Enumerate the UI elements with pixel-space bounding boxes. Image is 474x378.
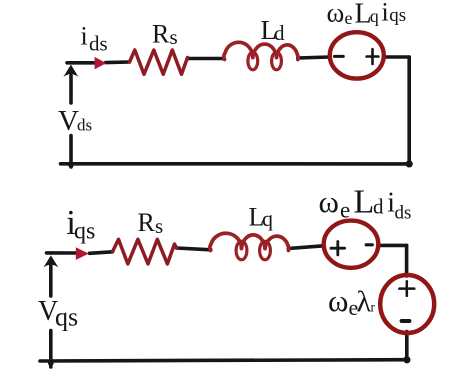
svg-text:V: V bbox=[58, 105, 79, 137]
svg-text:ds: ds bbox=[77, 116, 92, 135]
svg-text:e: e bbox=[340, 198, 350, 223]
svg-text:qs: qs bbox=[389, 5, 406, 26]
svg-text:q: q bbox=[370, 6, 379, 26]
svg-text:ds: ds bbox=[89, 32, 108, 56]
svg-text:i: i bbox=[382, 0, 389, 27]
svg-text:q: q bbox=[262, 206, 273, 231]
svg-text:ds: ds bbox=[395, 203, 412, 224]
svg-text:ω: ω bbox=[319, 184, 339, 219]
svg-text:L: L bbox=[354, 184, 375, 221]
svg-text:λ: λ bbox=[357, 286, 372, 319]
svg-text:qs: qs bbox=[74, 219, 95, 245]
svg-text:e: e bbox=[345, 8, 353, 28]
svg-text:ω: ω bbox=[328, 283, 348, 318]
svg-text:s: s bbox=[155, 214, 163, 238]
svg-text:R: R bbox=[138, 208, 156, 237]
svg-text:qs: qs bbox=[55, 302, 78, 331]
svg-text:i: i bbox=[81, 22, 88, 51]
svg-text:r: r bbox=[371, 300, 376, 315]
svg-text:d: d bbox=[373, 195, 384, 219]
svg-text:R: R bbox=[152, 20, 170, 49]
svg-text:s: s bbox=[170, 25, 178, 49]
svg-text:ω: ω bbox=[327, 0, 345, 28]
svg-text:d: d bbox=[274, 21, 285, 45]
